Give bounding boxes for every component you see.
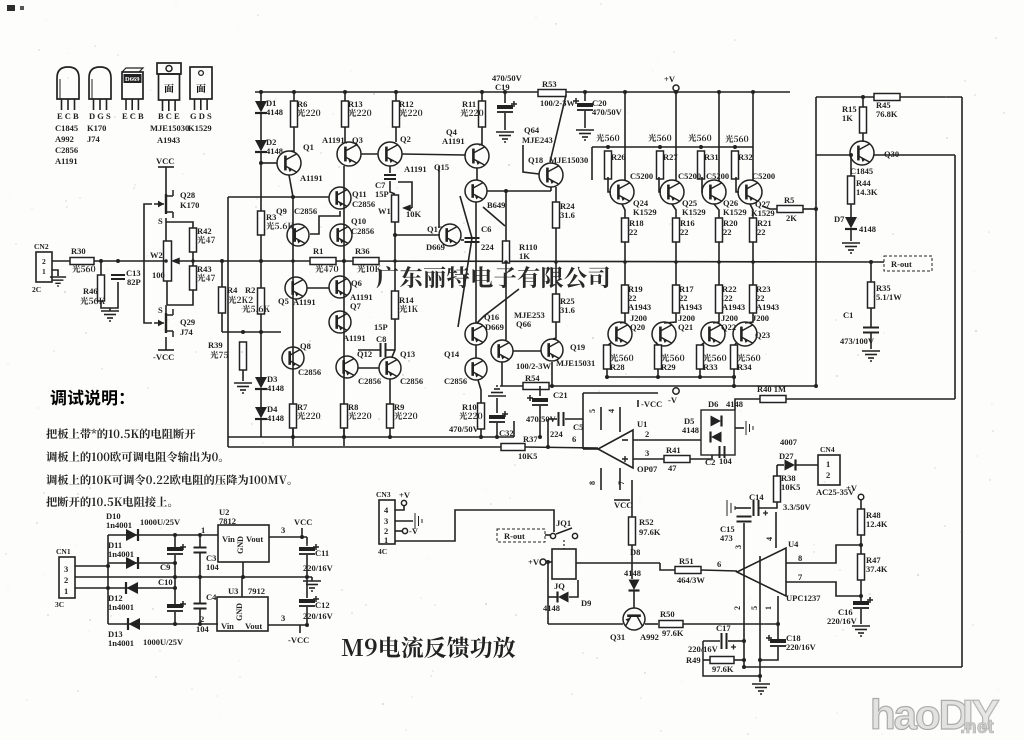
svg-text:C2: C2 [705, 457, 715, 467]
svg-text:4C: 4C [378, 547, 387, 556]
transistor Q29 [154, 309, 173, 337]
resistor R43 [190, 266, 197, 290]
label 560 d [725, 135, 748, 143]
svg-text:C2856: C2856 [400, 376, 423, 386]
junction [546, 560, 550, 564]
transistor Q18 [539, 163, 563, 187]
wire C6 left [461, 239, 464, 241]
wire R19-Q20 676 [664, 313, 676, 323]
svg-text:MJE15030: MJE15030 [549, 155, 588, 165]
junction [699, 145, 703, 149]
sideways ground [746, 421, 753, 435]
wire CN3 p4 [395, 506, 404, 510]
label R1 value [315, 265, 338, 273]
svg-text:Vin: Vin [222, 534, 235, 544]
svg-text:C21: C21 [553, 390, 568, 400]
svg-text:3: 3 [734, 545, 743, 549]
junction [291, 435, 295, 439]
svg-text:+V: +V [528, 557, 540, 567]
capacitor C9 [167, 547, 183, 551]
svg-text:R30: R30 [71, 246, 86, 256]
wire U3 gnd [241, 577, 243, 597]
diode D8 [629, 580, 640, 591]
svg-text:E C B: E C B [122, 111, 144, 121]
wire R12-Q2 [395, 127, 397, 142]
svg-text:+V: +V [846, 483, 858, 493]
svg-text:4007: 4007 [780, 437, 798, 447]
svg-text:31.6: 31.6 [560, 210, 575, 220]
svg-text:473/100V: 473/100V [840, 336, 875, 346]
diagonal drive wire 3 [477, 289, 519, 323]
svg-text:22: 22 [757, 227, 766, 237]
wire R42 bottom [192, 252, 194, 266]
wire C21 bottom [539, 406, 541, 437]
wire R19-Q20 719 [713, 313, 719, 323]
wire C7-W1 [390, 181, 395, 194]
wire C8 left [358, 349, 380, 351]
wire pin5 U4 v [759, 556, 761, 676]
resistor R47 [858, 554, 865, 580]
svg-text:CN4: CN4 [820, 445, 835, 454]
svg-text:R13: R13 [348, 99, 363, 109]
svg-text:Q3: Q3 [352, 135, 363, 145]
junction [814, 384, 818, 388]
svg-text:haoD: haoD [870, 691, 968, 738]
svg-text:C2856: C2856 [294, 206, 317, 216]
capacitor C17 [721, 633, 723, 649]
wire lower bias line [222, 331, 281, 333]
junction [259, 259, 263, 263]
label R13 value [348, 109, 371, 117]
resistor R41 [664, 456, 690, 463]
junction [583, 90, 587, 94]
junction [550, 384, 554, 388]
wire -VCC tick [299, 625, 301, 633]
svg-text:220/16V: 220/16V [827, 616, 858, 626]
svg-text:-V: -V [409, 526, 419, 536]
+V terminal [673, 85, 679, 91]
wire R2-D3 [260, 314, 262, 377]
svg-text:R37: R37 [523, 434, 538, 444]
svg-text:W2: W2 [150, 250, 163, 260]
capacitor C7 [384, 174, 396, 176]
svg-text:A1191: A1191 [55, 156, 78, 166]
watermark haoDIY [870, 691, 1000, 738]
svg-text:15P: 15P [375, 189, 389, 199]
junction [191, 259, 195, 263]
wire R4 top [221, 261, 223, 287]
wire gate bus [144, 204, 152, 323]
wire R28 bottom 658 [657, 369, 659, 377]
resistor R46 [98, 275, 105, 301]
label R11 value [460, 109, 483, 117]
transistor Q10 [330, 224, 352, 246]
svg-text:R36: R36 [355, 246, 370, 256]
svg-text:Q10: Q10 [351, 216, 366, 226]
wire rail to R19 719 [718, 262, 720, 285]
wire gnd rail right [175, 576, 312, 578]
transistor Q24 [610, 180, 634, 204]
svg-text:A992: A992 [55, 134, 74, 144]
label R33 value [703, 354, 726, 362]
wire bridge row4 [108, 623, 218, 625]
wire C1 gnd [870, 333, 872, 349]
wire Q20 emitter 664 [656, 342, 658, 346]
svg-text:R2: R2 [245, 285, 255, 295]
ground [303, 581, 321, 591]
connector CN4 [818, 455, 840, 485]
svg-text:A1191: A1191 [442, 136, 465, 146]
potentiometer W2 [164, 241, 172, 281]
wire U1 box top [583, 392, 658, 394]
junction [717, 90, 721, 94]
junction [393, 233, 397, 237]
wire D7 gnd [850, 229, 852, 241]
label R8 value [348, 412, 371, 420]
svg-text:4148: 4148 [543, 603, 560, 613]
ground [101, 311, 119, 321]
wire gnd stem right [759, 676, 761, 682]
connector CN1 [59, 557, 75, 598]
wire R46 top [100, 261, 102, 275]
svg-text:Q1: Q1 [303, 142, 314, 152]
svg-text:R8: R8 [348, 402, 358, 412]
wire Q out to R 22 676 [672, 204, 676, 218]
svg-text:8: 8 [588, 481, 597, 485]
capacitor C12 [299, 599, 315, 603]
junction [305, 575, 309, 579]
svg-text:R1: R1 [313, 246, 323, 256]
wire C9 v [174, 535, 176, 547]
wire input [52, 260, 70, 262]
label R30 value [72, 265, 95, 273]
svg-text:Q21: Q21 [678, 322, 693, 332]
svg-text:2: 2 [733, 606, 742, 610]
wire right box top [816, 96, 962, 98]
junction [605, 375, 609, 379]
wire Q out to R 22 625 [622, 204, 625, 218]
svg-text:4: 4 [384, 505, 389, 515]
svg-text:14.3K: 14.3K [856, 187, 878, 197]
svg-text:R-out: R-out [891, 259, 912, 269]
+V terminal CN3 [401, 500, 406, 505]
wire right box right [961, 97, 963, 667]
wire C17 left [703, 640, 720, 642]
transistor Q17 [439, 224, 461, 246]
wire R28 v 700 [699, 345, 701, 347]
wire protection drop [547, 562, 549, 624]
svg-text:224: 224 [550, 429, 564, 439]
transistor Q30 [850, 141, 874, 165]
wire R38 top [776, 465, 778, 476]
svg-text:4148: 4148 [267, 413, 284, 423]
junction [259, 161, 263, 165]
wire R6 drop [293, 92, 295, 101]
transistor Q25 [660, 180, 684, 204]
svg-text:CN1: CN1 [56, 547, 71, 556]
regulator U2 [218, 525, 269, 562]
capacitor C19 [497, 105, 513, 109]
wire R48-R47 [860, 535, 862, 554]
resistor R26 [605, 151, 612, 179]
svg-text:R11: R11 [462, 99, 476, 109]
svg-text:K1529: K1529 [188, 123, 212, 133]
wire R44 top [850, 155, 852, 176]
svg-text:Vout: Vout [246, 534, 263, 544]
wire pin2 U4 v [743, 523, 745, 667]
svg-text:R43: R43 [197, 264, 212, 274]
wire R25-Q19 [553, 322, 556, 339]
svg-text:B649: B649 [487, 200, 505, 210]
junction [480, 90, 484, 94]
svg-text:A1191: A1191 [322, 135, 345, 145]
wire Rout-contact [545, 534, 550, 536]
resistor R11 [479, 101, 486, 127]
svg-text:5: 5 [588, 409, 597, 413]
relay JQ coil [552, 549, 576, 579]
wire Q30 base line [816, 154, 850, 156]
wire C4 bottom [199, 609, 201, 624]
wire R11 drop [481, 92, 483, 102]
junction [554, 260, 558, 264]
package TO-126 D669 [122, 68, 143, 110]
wire D box gnd [735, 427, 744, 429]
resistor R29 [655, 345, 662, 369]
capacitor C18 [770, 639, 786, 643]
wire U3 out [268, 624, 307, 626]
diode D5 [711, 432, 722, 443]
wire inner rail tie [733, 377, 735, 386]
capacitor C4 [194, 603, 207, 605]
wire box left edge [227, 197, 229, 447]
svg-text:3: 3 [645, 448, 649, 458]
transistor Q6 [329, 276, 351, 298]
svg-text:Q15: Q15 [434, 162, 449, 172]
svg-text:A1943: A1943 [722, 302, 745, 312]
wire C3 bottom [199, 553, 201, 577]
U1 plus [622, 456, 628, 462]
svg-text:R3: R3 [266, 212, 276, 222]
capacitor C2 [719, 446, 721, 458]
label R7 value [297, 412, 320, 420]
wire C5 left [548, 418, 557, 420]
wire C7 top [389, 166, 391, 173]
label R46 value [80, 297, 105, 305]
junction [394, 90, 398, 94]
svg-text:R12: R12 [399, 99, 414, 109]
R-out label box 2 [497, 529, 545, 542]
diode D1 [255, 101, 267, 113]
svg-text:R49: R49 [686, 655, 701, 665]
resistor R24 [553, 202, 560, 228]
junction [751, 260, 755, 264]
svg-text:C1845: C1845 [850, 166, 873, 176]
svg-text:U4: U4 [788, 539, 799, 549]
wire VCC bar [158, 166, 174, 168]
wire R13-Q3 [345, 127, 347, 143]
svg-text:Q6: Q6 [351, 278, 362, 288]
svg-text:104: 104 [206, 562, 220, 572]
wire C5 right [565, 418, 583, 420]
label R43 value [197, 274, 215, 282]
svg-text:15P: 15P [374, 322, 388, 332]
wire VCC bar U1 [614, 499, 630, 501]
wire +V col 0 [624, 92, 626, 181]
svg-text:76.8K: 76.8K [876, 109, 898, 119]
wire R13 drop [344, 92, 346, 102]
svg-text:Q19: Q19 [570, 342, 585, 352]
svg-text:Q18: Q18 [528, 155, 543, 165]
svg-text:GND: GND [236, 536, 245, 554]
junction [814, 207, 818, 211]
regulator U3 [217, 597, 268, 631]
svg-text:OP07: OP07 [637, 464, 658, 474]
svg-text:1n4001: 1n4001 [106, 520, 132, 530]
resistor R12 [393, 101, 400, 127]
ground [862, 351, 880, 361]
svg-text:K1529: K1529 [723, 207, 747, 217]
wire R41 out [690, 455, 712, 459]
wire C12 top [306, 577, 308, 598]
wire upper bias line [228, 196, 329, 198]
wire Q18 emitter [550, 187, 552, 191]
svg-text:4148: 4148 [267, 383, 284, 393]
resistor R33 [697, 345, 704, 369]
junction [116, 259, 120, 263]
svg-text:D G S: D G S [89, 111, 111, 121]
resistor R34 [731, 345, 738, 369]
junction [674, 260, 678, 264]
wire Q17 collector up [438, 166, 440, 228]
svg-text:470/50V: 470/50V [592, 107, 623, 117]
junction [164, 259, 168, 263]
diagonal R53-Q18 [550, 95, 566, 162]
wire Q18 base drop [523, 145, 539, 174]
junction [259, 330, 263, 334]
resistor R37 [501, 444, 525, 451]
wire pin4 [619, 407, 621, 432]
resistor R39 [240, 342, 247, 370]
transistor Q13 [379, 357, 401, 379]
junction [300, 535, 304, 539]
resistor R14 [392, 291, 399, 319]
wire Q4-Q15 [476, 168, 478, 180]
wire R47-C16 [860, 580, 862, 601]
junction [758, 674, 762, 678]
JQ1 dashed link [563, 540, 565, 549]
capacitor C10 [167, 604, 183, 608]
wire C9-C10 [174, 555, 176, 604]
svg-text:2: 2 [64, 575, 68, 585]
svg-text:C2856: C2856 [298, 367, 321, 377]
junction [106, 586, 110, 590]
wire C22 bottom [496, 423, 498, 437]
wire R39 bottom [242, 370, 244, 381]
svg-text:R42: R42 [197, 226, 212, 236]
svg-text:224: 224 [481, 242, 495, 252]
ground [842, 243, 860, 253]
svg-text:Q2: Q2 [400, 134, 411, 144]
wire C12 bottom [306, 607, 308, 625]
svg-text:Q7: Q7 [350, 301, 362, 311]
wire input 2 [94, 260, 164, 262]
svg-text:1: 1 [42, 267, 46, 276]
svg-text:1000U/25V: 1000U/25V [143, 637, 184, 647]
svg-text:D7: D7 [834, 214, 845, 224]
wire C11 top [306, 537, 308, 546]
svg-text:R54: R54 [525, 373, 540, 383]
junction [291, 195, 295, 199]
junction [198, 575, 202, 579]
svg-text:C5200: C5200 [752, 171, 775, 181]
wire Q20 emitter 620 [607, 342, 612, 346]
svg-text:100/2-3W: 100/2-3W [516, 361, 551, 371]
capacitor C3 [194, 547, 207, 549]
wire R24-rail [555, 228, 557, 262]
svg-text:-VCC: -VCC [153, 352, 174, 362]
diode D12 [126, 582, 138, 594]
svg-text:C10: C10 [158, 577, 173, 587]
wire R40 out [786, 398, 955, 400]
svg-text:S: S [158, 216, 163, 226]
wire base stub 1 [659, 177, 661, 192]
svg-text:R29: R29 [661, 362, 676, 372]
resistor R18 [622, 218, 629, 242]
svg-text:A992: A992 [640, 632, 659, 642]
junction [342, 259, 346, 263]
svg-text:C2856: C2856 [444, 376, 467, 386]
wire col3 [343, 166, 345, 446]
junction [241, 330, 245, 334]
wire +V to coil [546, 561, 552, 563]
wire D1 col top [260, 92, 262, 101]
svg-text:Q9: Q9 [276, 206, 287, 216]
resistor R1 [310, 258, 336, 265]
junction [606, 145, 610, 149]
wire C21 top [539, 386, 541, 396]
wire base stub 3 [736, 177, 739, 192]
junction [623, 90, 627, 94]
transistor Q5 [285, 277, 307, 299]
svg-text:1: 1 [201, 525, 205, 535]
wire emitter down [954, 155, 956, 399]
svg-text:R32: R32 [738, 152, 753, 162]
wire col2 [289, 175, 293, 446]
wire pin4 U4 v [775, 512, 777, 548]
diode D9 [558, 592, 569, 603]
ground [852, 626, 870, 636]
sideways ground CN3 [415, 513, 422, 529]
wire +V col 1 [675, 92, 677, 181]
junction [861, 95, 865, 99]
wire R110 top [505, 191, 507, 241]
resistor R3 [258, 211, 265, 235]
wire pin5 [600, 407, 602, 430]
svg-text:R10: R10 [462, 402, 477, 412]
wire bottom rail tie [513, 421, 515, 437]
svg-text:R6: R6 [297, 99, 307, 109]
wire R22 to rail 676 [675, 242, 677, 262]
transistor Q27 [738, 180, 762, 204]
junction [173, 622, 177, 626]
W2 wiper arrow [173, 259, 180, 264]
svg-text:97.6K: 97.6K [662, 628, 684, 638]
wire R28 v 658 [657, 345, 659, 347]
instruction line 4 [46, 496, 171, 507]
svg-text:1: 1 [64, 586, 68, 596]
wire D4-bottom [260, 419, 262, 437]
svg-text:CN3: CN3 [376, 490, 391, 499]
